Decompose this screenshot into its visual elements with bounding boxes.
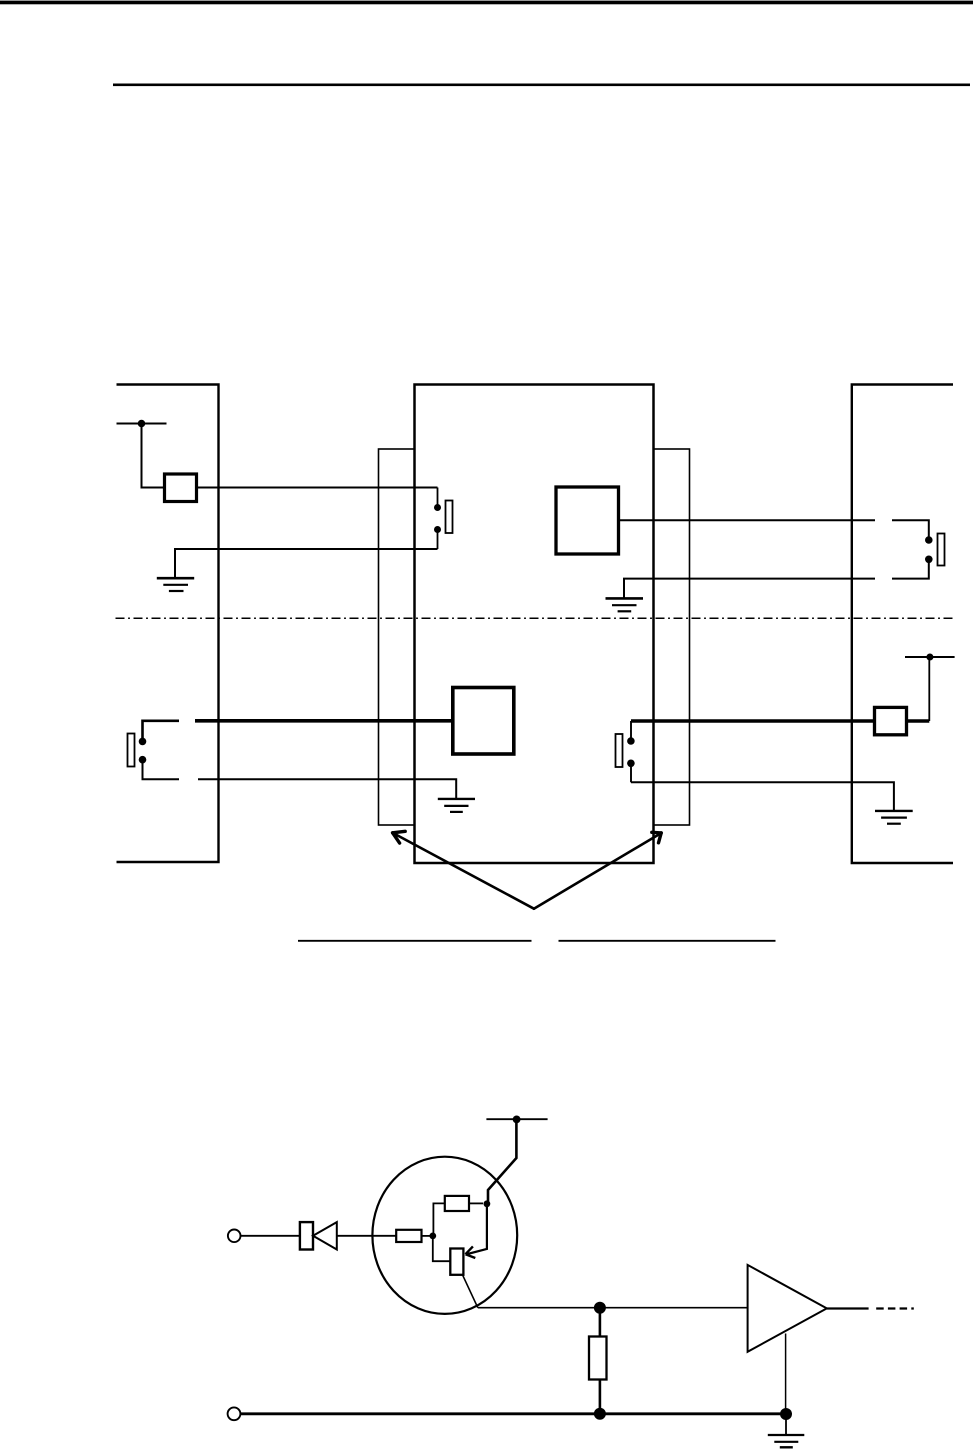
wire: left box supply stub xyxy=(117,423,167,425)
emitter element of Q1 xyxy=(450,1249,463,1275)
wire: CN3 pin 2 stub xyxy=(143,760,180,780)
wire: J3 bent lead into transistor Q1 xyxy=(488,1119,516,1203)
right connector strip xyxy=(654,449,690,825)
wire: thick signal line CN4 to coil K2 xyxy=(631,719,875,723)
callout arrow left xyxy=(393,831,534,908)
connector CN3 pin 1 dot xyxy=(139,738,147,746)
wire: CN1 pin 2 lead xyxy=(437,530,439,550)
wire: U1 to right box xyxy=(619,519,876,521)
wire: node A up to resistor R2 xyxy=(433,1203,444,1236)
node A dot xyxy=(429,1233,436,1240)
wire: thick signal line to U2 xyxy=(195,719,453,723)
wire: A1 output xyxy=(827,1307,869,1309)
wire: CN4 pin 1 lead xyxy=(630,721,632,741)
caption underline right xyxy=(559,940,776,942)
wire: Q1 output diagonal xyxy=(463,1275,478,1308)
wire: A1 reference to ground rail xyxy=(785,1334,787,1415)
connector CN1 pin 1 dot xyxy=(434,504,441,511)
ground G4 xyxy=(875,811,913,824)
relay coil K2 xyxy=(875,707,907,734)
junction dot J6 xyxy=(780,1408,792,1420)
connector CN4 pin 1 dot xyxy=(627,737,635,745)
wire: T1 to diode D1 xyxy=(241,1235,300,1237)
wire: right box supply stub xyxy=(905,656,955,658)
connector CN1 pin strip xyxy=(446,501,453,534)
wire: A1 output dashed continuation xyxy=(876,1307,914,1309)
diode D1 cathode bar xyxy=(300,1222,313,1249)
connector CN2 pin 1 dot xyxy=(925,536,933,544)
wire: node A down to emitter element xyxy=(433,1236,451,1261)
connector CN4 pin 2 dot xyxy=(627,760,635,768)
wire: ground rail xyxy=(240,1412,790,1415)
wire: J4 to resistor R3 xyxy=(599,1308,602,1337)
wire: +V rail xyxy=(486,1118,547,1120)
wire: connector CN2 pin 1 stub xyxy=(892,520,929,540)
wire: CN3 return to ground G3 xyxy=(198,779,456,798)
resistor R3 xyxy=(589,1337,607,1380)
connector CN1 pin 2 dot xyxy=(434,526,441,533)
transistor Q1 envelope xyxy=(372,1157,517,1314)
left connector strip xyxy=(379,449,415,825)
wire: CN4 pin 2 lead xyxy=(630,763,632,782)
wire: K2 to J2 leg xyxy=(907,719,930,723)
middle unit box xyxy=(415,385,654,864)
relay coil K1 xyxy=(165,474,197,502)
connector CN4 pin strip xyxy=(616,734,623,767)
interface module U2 xyxy=(453,688,514,755)
connector CN3 pin 2 dot xyxy=(139,756,147,764)
wire: CN1 to ground G1 xyxy=(175,549,438,578)
junction dot J5 xyxy=(594,1408,606,1420)
junction dot J4 xyxy=(594,1302,606,1314)
wire: D1 to base resistor R1 xyxy=(337,1235,396,1237)
resistor R1 xyxy=(396,1230,421,1242)
wire: J1 down to coil K1 xyxy=(142,424,165,488)
junction dot J3 xyxy=(513,1116,521,1124)
input terminal T1 xyxy=(228,1230,241,1243)
wire: connector CN2 pin 2 stub xyxy=(892,559,929,578)
page header bar xyxy=(0,1,973,5)
wire: J6 ground stem xyxy=(785,1414,787,1435)
centre dash-dot partition line xyxy=(116,617,957,619)
resistor R2 xyxy=(445,1196,469,1211)
ground G5 xyxy=(768,1435,805,1447)
connector CN2 pin strip xyxy=(938,534,945,566)
wire: CN4 return to ground G4 xyxy=(631,782,894,811)
wire: J2 down to coil K2 xyxy=(928,657,930,721)
wire: CN2 return to ground G2 xyxy=(624,579,875,598)
amplifier A1 xyxy=(748,1265,827,1352)
left unit box (open left) xyxy=(117,385,219,863)
diode D1 triangle xyxy=(313,1222,337,1249)
connector CN2 pin 2 dot xyxy=(925,556,933,564)
ground G2 xyxy=(606,598,644,611)
wire: CN1 pin 1 lead xyxy=(437,488,439,509)
wire: R2 to node B xyxy=(469,1202,483,1204)
connector CN3 pin strip xyxy=(128,734,135,767)
ground G3 xyxy=(438,799,475,812)
interface module U1 xyxy=(556,487,619,554)
wire: R1 to node A xyxy=(422,1235,432,1237)
right unit box (open right) xyxy=(852,385,953,864)
wire: K1 to connector CN1 xyxy=(197,487,438,489)
callout arrow right xyxy=(534,832,661,908)
header rule xyxy=(113,84,970,87)
ground terminal T2 xyxy=(228,1407,241,1420)
wire: R3 to ground rail xyxy=(599,1380,602,1414)
collector arrow into Q1 xyxy=(466,1206,487,1258)
caption underline left xyxy=(298,940,532,942)
ground G1 xyxy=(157,578,194,591)
node B dot xyxy=(484,1200,491,1207)
wire: CN3 pin 1 stub xyxy=(143,721,180,742)
junction dot J1 xyxy=(138,420,146,428)
junction dot J2 xyxy=(926,654,933,661)
wire: signal line to amplifier xyxy=(478,1307,748,1309)
